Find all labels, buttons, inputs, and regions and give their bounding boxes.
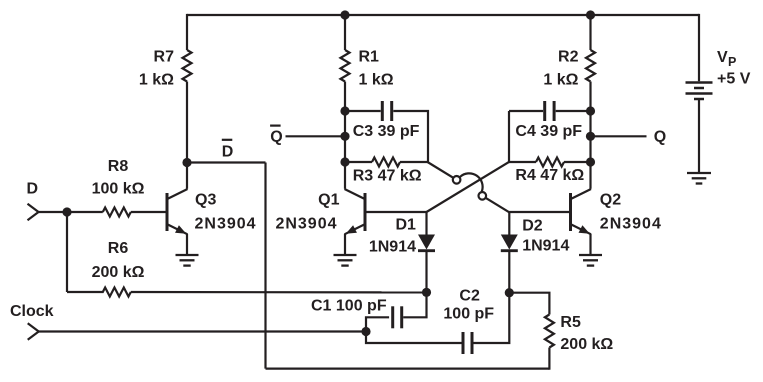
label C3 value <box>353 123 420 140</box>
battery VP negative lead <box>698 99 700 172</box>
node supply-R1 junction <box>340 10 349 19</box>
label R8 value <box>92 158 145 197</box>
svg-text:C1 100 pF: C1 100 pF <box>311 298 387 315</box>
capacitor C3 <box>382 101 391 121</box>
svg-text:1 kΩ: 1 kΩ <box>543 71 578 88</box>
svg-text:1N914: 1N914 <box>522 238 569 255</box>
capacitor C1 <box>393 306 402 328</box>
wire Clock node up to C1 <box>366 317 389 331</box>
svg-text:Q: Q <box>654 129 666 146</box>
node Q junction <box>586 132 595 141</box>
capacitor C4 <box>545 101 554 121</box>
label Clock <box>10 303 54 320</box>
label C4 value <box>515 123 582 140</box>
svg-text:R2: R2 <box>558 49 579 66</box>
diode D2 <box>501 212 518 293</box>
label R5 value <box>560 314 613 353</box>
label R3 value <box>353 167 422 184</box>
wire bottom rail to R5 <box>266 368 550 370</box>
wire R1 column top <box>344 15 346 50</box>
svg-text:R1: R1 <box>359 49 380 66</box>
wire R7 column bottom <box>186 82 188 163</box>
node D input junction <box>62 207 71 216</box>
svg-text:Q2: Q2 <box>600 192 621 209</box>
wire Qbar output <box>286 135 346 137</box>
svg-text:D: D <box>222 144 234 161</box>
wire C3 to loop corner <box>393 111 428 162</box>
node hop circle left <box>453 176 461 184</box>
label C1 value <box>311 298 387 315</box>
wire cross-couple diagonal to D2 (segment 2) <box>482 196 509 213</box>
ground Q3 <box>176 255 199 266</box>
svg-text:D: D <box>27 181 39 198</box>
wire D input <box>39 211 103 213</box>
svg-text:Q: Q <box>270 129 282 146</box>
wire Q2 base <box>509 211 570 213</box>
label Q1 <box>275 192 339 233</box>
label D input <box>27 181 39 198</box>
svg-text:100 pF: 100 pF <box>443 306 494 323</box>
node hop circle right <box>479 192 487 200</box>
node C3-R1 junction <box>340 106 349 115</box>
label Dbar <box>222 144 234 161</box>
resistor R8 <box>103 208 131 217</box>
svg-text:P: P <box>728 55 736 69</box>
svg-text:1 kΩ: 1 kΩ <box>359 71 394 88</box>
resistor R7 <box>183 50 192 82</box>
node D2-R5-C2 junction <box>505 288 514 297</box>
svg-text:C3 39 pF: C3 39 pF <box>353 123 420 140</box>
wire hop arc over crossing <box>460 173 483 191</box>
wire R2 column bottom <box>589 82 591 163</box>
ground Q1 <box>334 255 357 266</box>
wire R2 column top <box>589 15 591 50</box>
wire Dbar vertical <box>264 163 266 369</box>
label C2 value <box>443 288 494 323</box>
svg-text:C4 39 pF: C4 39 pF <box>515 123 582 140</box>
wire R5 to bottom rail <box>548 348 550 370</box>
wire C4 to R2 column <box>556 110 591 112</box>
wire C4 loop left vertical <box>508 111 510 162</box>
label VP +5V <box>717 49 751 87</box>
svg-text:R3 47 kΩ: R3 47 kΩ <box>353 167 422 184</box>
label D2 <box>522 218 569 255</box>
svg-text:200 kΩ: 200 kΩ <box>92 264 145 281</box>
capacitor C2 <box>463 332 472 354</box>
label Q2 <box>600 192 662 233</box>
svg-text:2N3904: 2N3904 <box>195 216 257 233</box>
svg-text:Q1: Q1 <box>318 192 339 209</box>
label Q <box>654 129 666 146</box>
battery VP <box>686 83 713 100</box>
label R2 value <box>543 49 578 89</box>
transistor Q1 <box>345 162 366 254</box>
transistor Q2 <box>571 162 592 254</box>
wire R8 to Q3 base <box>131 211 167 213</box>
wire Clock input <box>39 330 366 332</box>
svg-text:100 kΩ: 100 kΩ <box>92 180 145 197</box>
connector D input chevron <box>28 204 39 220</box>
resistor R5 <box>545 315 554 348</box>
wire C2 to D2 node <box>474 293 510 343</box>
svg-text:R7: R7 <box>154 49 175 66</box>
battery VP positive lead <box>698 14 700 81</box>
label Qbar <box>270 129 282 146</box>
svg-text:V: V <box>717 49 728 66</box>
label R6 value <box>92 240 145 281</box>
wire cross-couple diagonal D1 to R4 <box>427 162 510 212</box>
label Q3 <box>195 192 257 233</box>
node R4-R2 junction <box>586 157 595 166</box>
wire C1 to D1 node <box>403 292 426 317</box>
svg-text:1 kΩ: 1 kΩ <box>139 71 174 88</box>
node C4-R2 junction <box>586 106 595 115</box>
wire D2 node to R5 <box>509 293 549 315</box>
label R7 value <box>139 49 174 89</box>
ground Q2 <box>579 255 602 266</box>
label R4 value <box>515 167 584 184</box>
wire Clock node down to C2 <box>366 332 462 344</box>
node D1-R6-C1 junction <box>422 288 431 297</box>
wire R7 column top <box>186 14 188 50</box>
wire C3 top branch <box>345 110 381 112</box>
connector Clock input chevron <box>28 323 39 339</box>
svg-text:R5: R5 <box>560 314 581 331</box>
svg-text:1N914: 1N914 <box>369 239 416 256</box>
node R3-R1 junction <box>340 157 349 166</box>
resistor R4 <box>509 161 536 163</box>
wire Q1 base <box>365 211 427 213</box>
wire C4 top branch <box>509 110 543 112</box>
resistor R6 <box>67 288 131 297</box>
label D1 <box>369 217 416 256</box>
resistor R3 <box>345 161 372 163</box>
ground battery <box>687 173 711 184</box>
svg-text:D2: D2 <box>522 218 543 235</box>
wire top supply rail <box>187 14 699 16</box>
node Clock junction <box>361 327 370 336</box>
wire R1 column bottom <box>344 82 346 163</box>
node supply-R2 junction <box>586 10 595 19</box>
svg-text:R8: R8 <box>108 158 129 175</box>
label R1 value <box>359 49 394 89</box>
svg-text:Clock: Clock <box>10 303 54 320</box>
svg-text:+5 V: +5 V <box>717 70 751 87</box>
svg-text:C2: C2 <box>459 288 480 305</box>
wire Dbar horizontal <box>187 161 266 163</box>
svg-text:2N3904: 2N3904 <box>275 216 337 233</box>
resistor R2 <box>586 50 595 82</box>
transistor Q3 <box>167 163 188 255</box>
svg-text:D1: D1 <box>396 217 417 234</box>
wire D node down to R6 <box>66 212 68 292</box>
wire R6 to D1 node <box>131 291 427 294</box>
node Qbar junction <box>340 132 349 141</box>
svg-text:Q3: Q3 <box>195 192 216 209</box>
diode D1 <box>418 212 435 292</box>
svg-text:200 kΩ: 200 kΩ <box>560 336 613 353</box>
node R7-Q3 collector junction <box>182 158 191 167</box>
resistor R1 <box>341 50 350 82</box>
wire Q output <box>591 135 647 137</box>
svg-text:R6: R6 <box>108 240 129 257</box>
wire cross-couple diagonal R3 to D2 (segment 1) <box>428 162 457 180</box>
svg-text:R4 47 kΩ: R4 47 kΩ <box>515 167 584 184</box>
svg-text:2N3904: 2N3904 <box>600 216 662 233</box>
